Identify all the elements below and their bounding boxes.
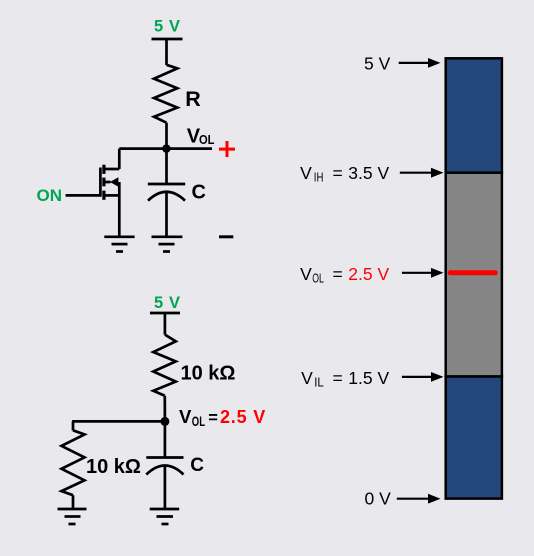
svg-text:C: C	[192, 182, 206, 204]
svg-text:IH: IH	[314, 171, 324, 185]
svg-text:1.5 V: 1.5 V	[348, 368, 389, 388]
svg-text:=: =	[333, 264, 343, 284]
svg-text:5 V: 5 V	[364, 54, 391, 74]
svg-text:5 V: 5 V	[154, 294, 181, 312]
svg-text:10 kΩ: 10 kΩ	[181, 363, 236, 385]
svg-text:V: V	[301, 368, 313, 388]
svg-text:2.5 V: 2.5 V	[220, 407, 266, 427]
svg-text:=: =	[333, 163, 343, 183]
svg-text:IL: IL	[314, 375, 324, 389]
svg-text:OL: OL	[199, 132, 215, 147]
svg-text:0 V: 0 V	[365, 489, 392, 509]
svg-text:5 V: 5 V	[154, 18, 181, 36]
svg-text:ON: ON	[37, 186, 63, 205]
svg-text:=: =	[333, 368, 343, 388]
svg-text:V: V	[179, 406, 192, 427]
svg-text:C: C	[190, 455, 204, 476]
svg-text:OL: OL	[192, 414, 205, 429]
svg-text:2.5 V: 2.5 V	[348, 264, 389, 284]
svg-text:R: R	[185, 87, 201, 111]
svg-text:OL: OL	[312, 272, 324, 286]
svg-text:=: =	[208, 409, 218, 427]
svg-text:10 kΩ: 10 kΩ	[86, 456, 141, 478]
svg-text:V: V	[300, 264, 312, 284]
svg-text:V: V	[300, 163, 312, 183]
svg-text:3.5 V: 3.5 V	[348, 163, 389, 183]
